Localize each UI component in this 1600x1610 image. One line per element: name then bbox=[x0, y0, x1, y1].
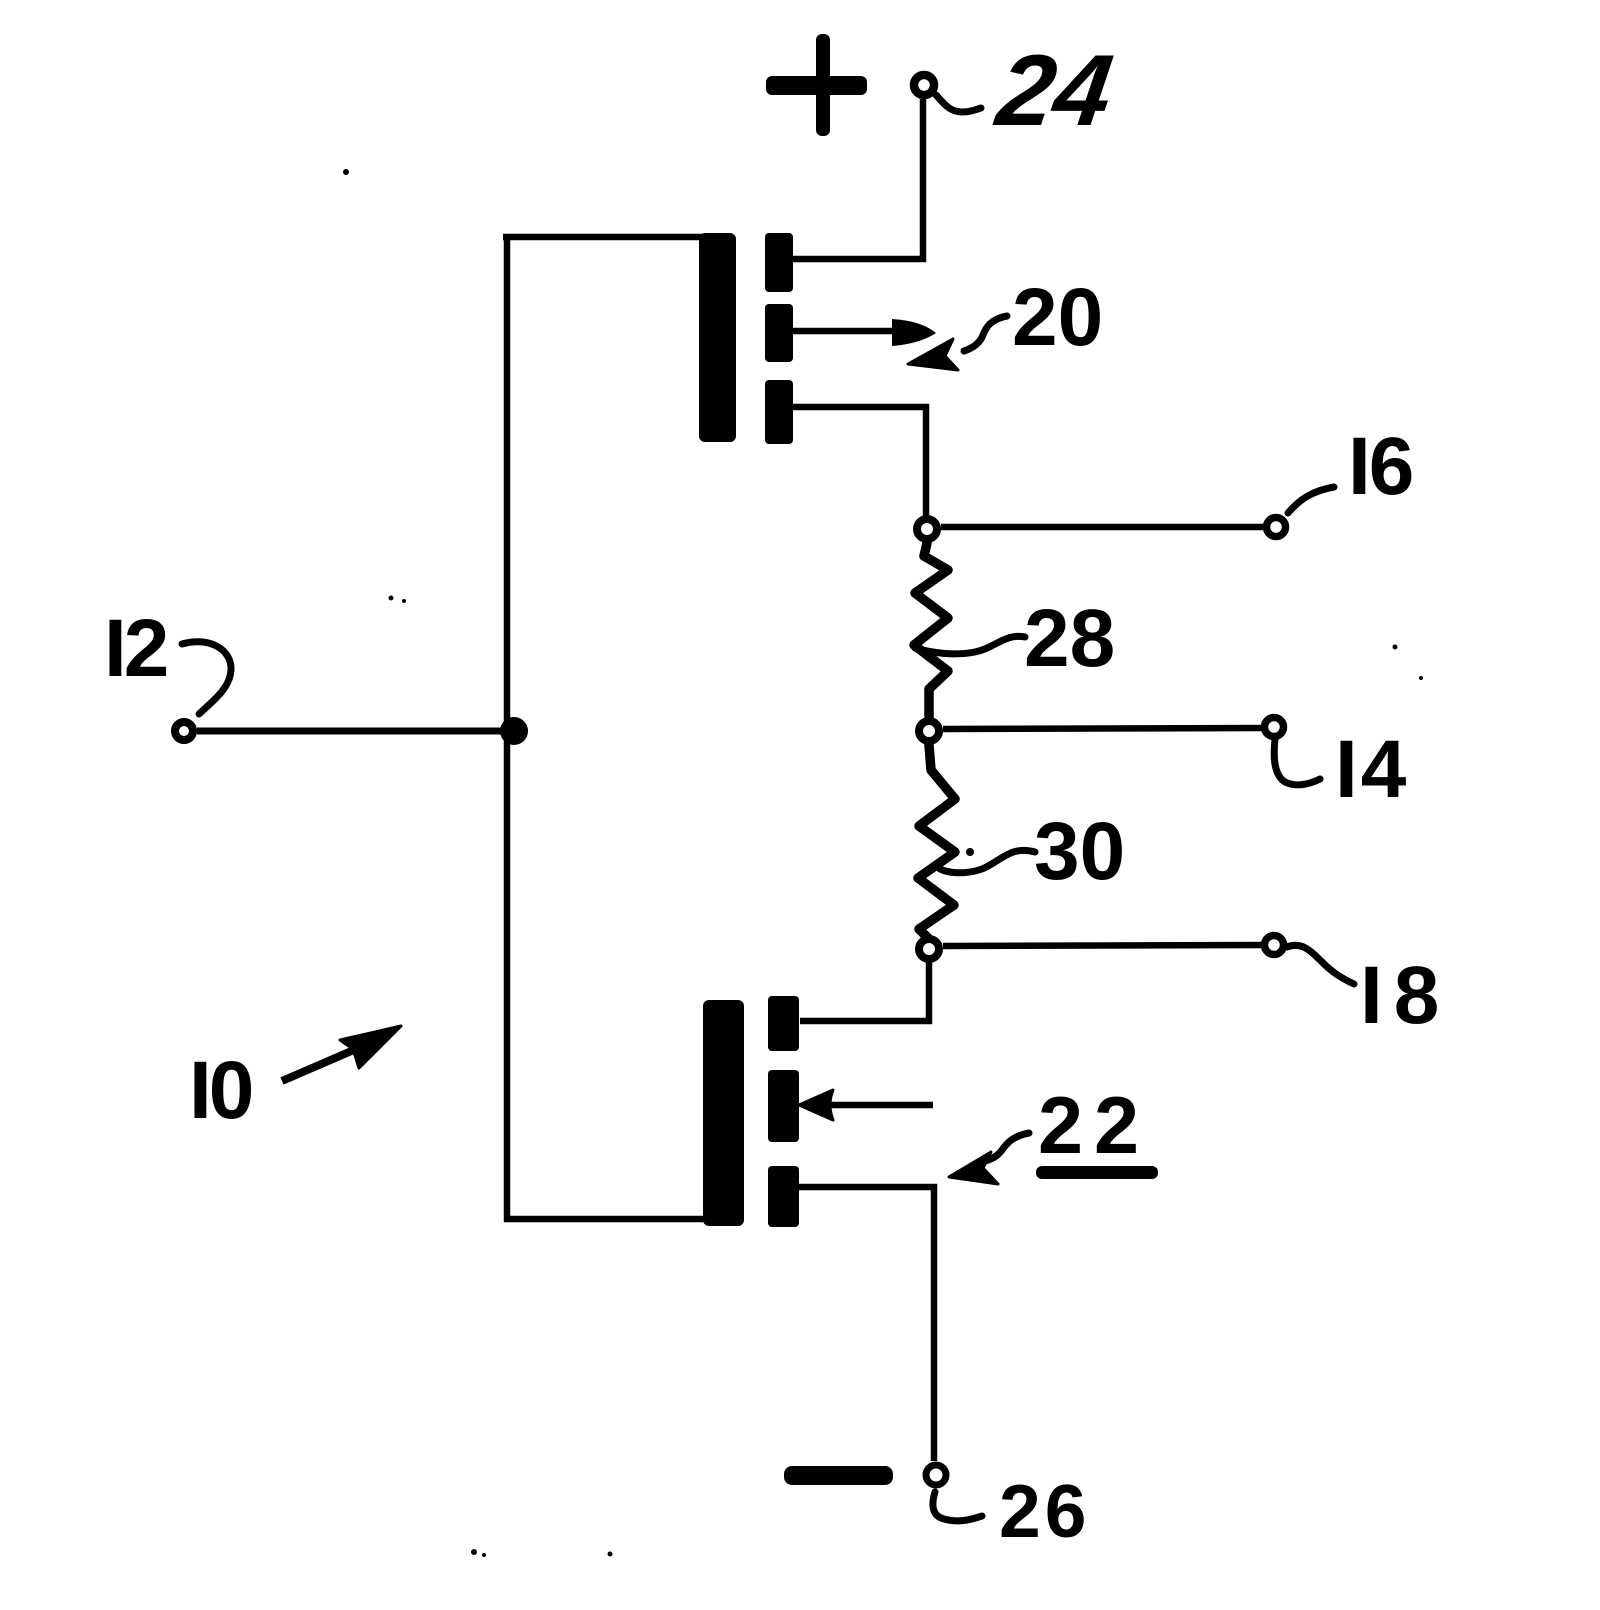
svg-text:I0: I0 bbox=[189, 1045, 252, 1136]
svg-text:28: 28 bbox=[1024, 593, 1115, 684]
node 14 bbox=[919, 721, 939, 741]
wire node 18 to transistor 22 drain bbox=[800, 962, 929, 1021]
leader 24 bbox=[936, 95, 981, 112]
leader 28 bbox=[915, 636, 1025, 654]
svg-text:I4: I4 bbox=[1335, 724, 1409, 815]
wire node 18 to terminal 18 bbox=[943, 945, 1263, 946]
arrowhead of leader 22 bbox=[949, 1152, 998, 1184]
resistor 28 bbox=[914, 543, 948, 717]
svg-text:24: 24 bbox=[989, 33, 1119, 146]
scan speck pair above terminal 12 wire (second) bbox=[402, 599, 406, 603]
scan speck bottom left bbox=[471, 1549, 477, 1555]
leader 18 bbox=[1287, 945, 1354, 984]
battery negative symbol (-) bbox=[784, 1466, 893, 1485]
scan speck bottom left (second) bbox=[482, 1553, 486, 1557]
transistor 22 source contact bbox=[768, 1166, 799, 1227]
transistor 22 gate bar bbox=[703, 1000, 744, 1226]
wire node 16 to terminal 16 bbox=[941, 524, 1265, 531]
transistor 22 substrate arrow bbox=[799, 1090, 933, 1120]
terminal 12 bbox=[175, 722, 193, 740]
wire node 14 to terminal 14 bbox=[943, 728, 1264, 729]
transistor 20 body contact bbox=[765, 304, 793, 362]
node 18 bbox=[919, 939, 939, 959]
resistor 30 bbox=[918, 745, 955, 938]
transistor 20 source contact bbox=[765, 380, 793, 444]
leader 22 bbox=[982, 1133, 1029, 1162]
wire terminal 12 to gate bus bbox=[197, 728, 510, 735]
underline of label 22 bbox=[1036, 1166, 1158, 1179]
wire transistor 22 source to terminal 26 bbox=[799, 1187, 934, 1461]
wire gate bus left vertical bbox=[504, 234, 511, 1222]
svg-text:26: 26 bbox=[999, 1469, 1090, 1553]
leader 14 bbox=[1274, 739, 1320, 785]
transistor 22 body contact bbox=[768, 1070, 799, 1142]
svg-text:I2: I2 bbox=[104, 603, 167, 694]
transistor 20 drain contact bbox=[765, 233, 793, 292]
wire transistor 20 source to node 16 bbox=[793, 407, 926, 516]
leader 26 bbox=[933, 1492, 982, 1521]
wire gate bus bottom bbox=[504, 1216, 712, 1223]
scan speck right of label 28 bbox=[1393, 645, 1398, 650]
leader 20 bbox=[964, 316, 1007, 351]
terminal 14 bbox=[1265, 718, 1284, 737]
svg-text:I6: I6 bbox=[1348, 421, 1412, 512]
arrowhead of leader 20 bbox=[908, 339, 958, 370]
terminal 24 bbox=[914, 75, 934, 95]
svg-text:20: 20 bbox=[1012, 272, 1103, 363]
leader 16 bbox=[1288, 487, 1334, 513]
svg-text:30: 30 bbox=[1034, 806, 1125, 897]
node 16 bbox=[917, 519, 937, 539]
leader 30 bbox=[940, 850, 1035, 872]
terminal 16 bbox=[1267, 518, 1286, 537]
leader 12 bbox=[182, 642, 231, 714]
scan speck right of label 28 (lower) bbox=[1419, 676, 1423, 680]
scan speck near resistor 30 bbox=[966, 848, 974, 856]
transistor 20 gate bar bbox=[699, 233, 736, 442]
scan speck bottom centre bbox=[608, 1552, 613, 1557]
terminal 18 bbox=[1265, 936, 1284, 955]
transistor 22 drain contact bbox=[768, 996, 799, 1051]
svg-text:I8: I8 bbox=[1360, 950, 1450, 1041]
battery positive symbol (+) bbox=[766, 34, 867, 136]
transistor 20 substrate arrow bbox=[793, 319, 936, 346]
scan speck top left bbox=[343, 169, 349, 175]
wire gate bus top bbox=[503, 234, 703, 241]
scan speck pair above terminal 12 wire bbox=[389, 596, 394, 601]
arrow 10 bbox=[282, 1026, 401, 1081]
terminal 26 bbox=[926, 1465, 946, 1485]
wire terminal 24 to transistor 20 drain bbox=[793, 99, 923, 259]
node junction on gate bus bbox=[500, 717, 528, 745]
svg-text:22: 22 bbox=[1038, 1081, 1150, 1171]
